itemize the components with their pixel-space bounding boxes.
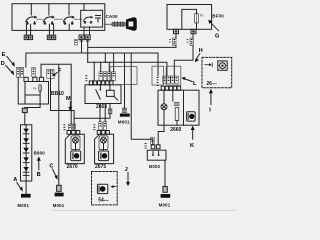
label A with arrow [13,177,23,192]
2660 internal contact and resistor [173,90,179,125]
svg-text:F: F [58,68,62,74]
BB10 pin row [24,77,44,81]
svg-text:F5: F5 [200,14,204,18]
wire code label under BF00 pin 2 [187,38,194,46]
2660 wire code labels [163,76,178,83]
svg-text:2660: 2660 [170,127,181,133]
2675 icon [99,151,109,161]
label L with arrow [181,77,197,87]
svg-text:B002: B002 [149,164,161,169]
buzzer icon in right box [187,112,196,121]
wire: F-coded wire to 2670 [51,79,75,125]
diode 3 [23,148,29,153]
fuse box BF00 [167,5,212,30]
wire: ground run to mid M001 [58,64,60,185]
2670 icon [71,151,81,161]
striped connector on 2665 bus stub [108,104,112,115]
label D with arrow [1,61,14,75]
BF00 internal wire [182,9,197,29]
B002 pin row [151,145,160,149]
svg-text:54---: 54--- [98,197,109,203]
2670 lamp [71,136,80,151]
svg-text:B: B [37,172,41,178]
wire: S3 terminal to box bottom [68,24,70,30]
label 54-- [98,197,109,203]
label M with arrow [66,96,72,111]
arrow I pointing to 26-- box [209,89,213,114]
svg-text:CA00: CA00 [106,14,118,19]
2665 pin row [89,81,113,85]
wire: S2 terminals to lug connector [49,24,53,35]
2675 pin numbers column [93,124,95,130]
BF00 output pin 2 [191,29,196,33]
fuse F5 [195,14,204,23]
battery unit BB10 box [25,82,64,105]
2670 pin numbers column [63,124,65,130]
wire: S1 terminals to lug connector [26,24,30,35]
dashed future-unit box 26-- [202,57,232,87]
auxiliary box right of 2660 [184,90,200,125]
clock 2675 box [95,134,114,170]
relay 2665 box [85,85,121,110]
svg-text:J: J [125,167,128,173]
wire: 2665 to diode-strip bus (y=118.2) [74,115,110,119]
BF00 output pin 1 [174,29,179,33]
arrow J [125,167,130,187]
arrow G pointing to fuse F5 [208,20,219,40]
connector on diode strip top [22,108,27,125]
BB10 wire code label (E/D target) [17,67,24,77]
bottom right ground connector [163,187,167,193]
label K with arrow [190,126,195,149]
label CA00 [106,14,118,19]
connector arrow icon in 26-- box [205,63,212,67]
2670 pin row [67,131,80,135]
B002 pin numbers column [145,143,147,149]
flasher unit 2660 box [158,90,184,133]
BB10 wire code label 2 [32,67,35,77]
connector housings above 2660 [152,66,181,85]
svg-text:M001: M001 [17,203,29,208]
CA00 output pin connector [79,35,90,40]
wire: inner box to pin connector [84,27,90,35]
wire: BB10 pin3 bus (y=64.2) [41,64,71,124]
interior lamp unit B002 [147,150,166,169]
wire code label (F target) [47,69,54,78]
lug connector pair under S1 [24,35,32,39]
svg-text:L: L [193,81,197,87]
wire: drop to B002 [131,53,153,145]
svg-text:E: E [2,52,6,58]
label F with arrow [51,68,62,77]
2675 lamp [99,136,108,151]
clock icon in 26-- box [218,61,227,70]
switch contact S4 [84,4,93,23]
connector housing right of 2665 labels [110,67,137,85]
ignition key icon [105,17,137,31]
2660 pin numbers column [157,77,159,86]
switch contact S2 [43,4,54,25]
wires from 2665 pins up [94,53,113,81]
2665 internal relay contacts [96,85,118,100]
dashed box 54-- [92,172,118,205]
2660 pin row [161,86,180,90]
label 26-- [206,81,217,87]
label B800 [34,151,46,156]
wire: lower feed bus (y=62.2) [88,62,167,76]
wire code label left of CA00 pin connector [75,39,90,45]
CA00 inner contact-group box [81,10,103,27]
2665 wire code labels [99,72,115,81]
wire from 2660 lamp to B002 [158,125,164,145]
label C with arrow [49,164,57,180]
wire: accessory bus (y=53) [26,40,158,68]
ignition switch unit CA00 outer box [12,4,105,31]
switch gang linkage [37,18,82,20]
wire into 2670 pin2 [73,124,75,131]
wire: ignition feed bus to fuse (y=47.4) [88,34,176,63]
svg-text:K: K [190,143,194,149]
fuse F4 in BB10 [25,85,41,104]
2660 indicator lamp [161,90,167,125]
2670 wire code labels [68,124,75,130]
svg-text:BB10: BB10 [51,91,64,97]
wire from label down left of BB10 [18,77,40,104]
ground M001 bottom right [159,194,171,207]
page scan edge line [52,210,236,212]
2665 case ground wire [122,53,127,113]
diode 2 [23,138,29,143]
lug connector pair under S2 [47,35,55,39]
diode 6 [23,174,29,176]
switch contact S3 [63,4,74,25]
svg-text:M001: M001 [53,203,65,208]
B002 ground wire [164,160,166,186]
mid ground connector [57,185,62,191]
svg-text:H: H [199,48,203,54]
wire: fused feed from BF00 pin 2 down to instrument connector [174,34,193,76]
ground M001 mid [53,193,65,209]
B002 wire code label [151,137,155,144]
diode strip B800 [21,125,32,181]
diode 4 [23,157,29,162]
lighting rheostat 2670 box [65,134,84,170]
label H with arrow [195,48,203,62]
svg-text:G: G [215,34,219,40]
svg-text:2675: 2675 [95,164,106,170]
auxiliary contact in CA00 [96,16,101,23]
wire: 2665 stubs down to 2675 [100,104,105,122]
arrow B pointing to B800 [37,156,41,178]
label BF00 [212,13,224,18]
diode 1 [23,129,29,134]
B002 internal contacts [152,152,159,157]
svg-text:BF00: BF00 [212,13,224,18]
svg-text:F4: F4 [33,87,37,91]
2665 pin numbers column [85,75,87,81]
wire code label under BF00 pin 1 [169,38,176,46]
svg-text:M001: M001 [159,202,171,207]
icon in 54-- box [97,184,107,193]
wire from BB10 bottom to diode strip [25,104,40,108]
small arrow icon in 54-- box [111,185,116,188]
ground M001 left [17,181,30,208]
2675 wire code labels [99,122,107,130]
diode 5 [23,167,29,172]
wire: bus to 2660 connector [157,53,159,76]
svg-text:2670: 2670 [67,164,78,170]
svg-text:M001: M001 [118,120,130,125]
svg-text:26---: 26--- [206,81,217,87]
ground M001 under 2665 [118,114,130,125]
label E with arrow [2,52,15,67]
svg-text:2665: 2665 [96,104,107,110]
2675 pin row [97,131,109,135]
svg-text:D: D [1,61,5,67]
switch contact S1 [26,4,37,25]
svg-text:B800: B800 [34,151,46,156]
